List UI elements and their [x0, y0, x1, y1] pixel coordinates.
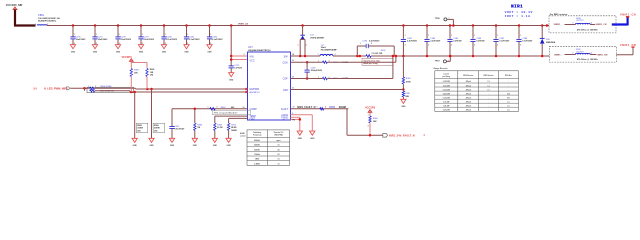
table switching frequency — [247, 130, 290, 165]
capacitor C287 — [493, 24, 510, 57]
svg-text:3.4: 3.4 — [33, 87, 37, 90]
wire FAULT out — [346, 109, 348, 136]
svg-text:VNIR1_CN: VNIR1_CN — [596, 24, 607, 26]
svg-text:U17: U17 — [248, 45, 253, 49]
svg-text:VCC3P3: VCC3P3 — [121, 55, 132, 59]
svg-text:3OHM: 3OHM — [137, 128, 143, 130]
svg-text:1: 1 — [208, 107, 209, 109]
resistor R366 — [194, 108, 204, 139]
note TH1 temp — [213, 111, 251, 115]
ground — [70, 45, 75, 49]
svg-text:0.1uF/100V: 0.1uF/100V — [499, 41, 510, 43]
svg-text:2: 2 — [368, 125, 369, 127]
resistor R307 — [90, 90, 115, 93]
capacitor C292 — [169, 109, 185, 139]
svg-text:1: 1 — [318, 54, 319, 56]
svg-text:2: 2 — [217, 107, 218, 109]
svg-text:GND: GND — [139, 52, 144, 54]
wire CSN — [291, 61, 323, 63]
svg-text:1: 1 — [187, 34, 188, 36]
diode D17 — [298, 24, 325, 57]
svg-text:1: 1 — [573, 53, 574, 55]
svg-text:R308: R308 — [137, 125, 142, 127]
capacitor C288 — [516, 24, 533, 57]
svg-text:11: 11 — [292, 88, 294, 90]
svg-text:2.2MHz: 2.2MHz — [254, 163, 260, 165]
svg-text:GND: GND — [193, 145, 198, 147]
svg-text:C279: C279 — [144, 36, 150, 38]
capacitor C276 — [70, 24, 86, 45]
op-amp U17 LMQ66430 regulator — [248, 45, 291, 121]
ground — [207, 45, 212, 49]
svg-text:2.2uF/100V: 2.2uF/100V — [407, 41, 418, 43]
svg-text:2.2uF/10/3V: 2.2uF/10/3V — [369, 40, 380, 42]
svg-text:1.6: 1.6 — [507, 106, 509, 108]
output port NIR1_24V_FAULT_N — [383, 133, 426, 137]
svg-text:2: 2 — [497, 45, 498, 47]
capacitor C280 — [161, 24, 177, 45]
svg-text:1: 1 — [573, 23, 574, 25]
wire CSP to sense — [328, 78, 393, 80]
svg-text:100 OHM,100 MHZ_GA: 100 OHM,100 MHZ_GA — [38, 17, 60, 20]
svg-text:0.121-30R: 0.121-30R — [443, 89, 451, 91]
svg-text:C276: C276 — [76, 36, 82, 38]
resistor R303 — [318, 61, 348, 64]
svg-text:0.1uF/100V: 0.1uF/100V — [167, 39, 178, 41]
svg-text:43: 43 — [278, 148, 280, 151]
svg-text:0.01uF/16V: 0.01uF/16V — [174, 129, 185, 131]
svg-text:PIC1094XPDDIMP: PIC1094XPDDIMP — [321, 49, 338, 52]
svg-text:FSET: FSET — [250, 119, 256, 121]
svg-text:10K: 10K — [373, 121, 377, 123]
power port VCC4025_NIR — [6, 4, 23, 10]
wire FSET — [229, 117, 248, 119]
svg-text:CNI: CNI — [154, 130, 158, 132]
svg-text:FB01: FB01 — [38, 14, 44, 17]
svg-text:GND: GND — [162, 52, 167, 54]
svg-text:1.2: 1.2 — [487, 81, 489, 83]
svg-text:1: 1 — [318, 61, 319, 63]
svg-text:VCC3P3: VCC3P3 — [365, 106, 376, 110]
svg-text:Switching: Switching — [253, 131, 261, 134]
svg-text:1608M: 1608M — [231, 130, 237, 132]
wire CSP — [291, 78, 323, 80]
ground — [401, 99, 406, 103]
svg-text:1: 1 — [428, 35, 429, 37]
ferrite bead FB10 box — [549, 16, 616, 33]
svg-text:2: 2 — [451, 45, 452, 47]
svg-text:2: 2 — [292, 113, 293, 115]
svg-text:VCC: VCC — [250, 59, 255, 62]
svg-text:GND: GND — [226, 145, 231, 147]
svg-text:1uF/16V: 1uF/16V — [234, 68, 242, 70]
svg-text:C280: C280 — [167, 36, 173, 38]
svg-text:GND: GND — [116, 52, 121, 54]
svg-text:CSP: CSP — [283, 78, 288, 81]
svg-text:GND: GND — [149, 145, 154, 147]
test point TP57 — [435, 55, 452, 63]
svg-text:ADJ/MP1G: ADJ/MP1G — [250, 91, 260, 94]
svg-text:NIR1: NIR1 — [511, 4, 523, 9]
svg-text:C282: C282 — [212, 36, 218, 38]
svg-text:GND: GND — [133, 145, 138, 147]
capacitor C282 — [207, 24, 223, 45]
svg-text:2: 2 — [335, 54, 336, 56]
wire VNIR1_IN bus — [47, 25, 549, 27]
svg-text:10uF/100V: 10uF/100V — [76, 39, 87, 41]
svg-text:VCC4025_NIR: VCC4025_NIR — [6, 4, 23, 7]
svg-text:BLM41PG101SN1L: BLM41PG101SN1L — [38, 20, 57, 23]
svg-text:10K: 10K — [134, 72, 138, 74]
svg-text:GND: GND — [213, 145, 218, 147]
svg-text:1uF/100V: 1uF/100V — [476, 41, 485, 43]
svg-text:0.1uF/100V: 0.1uF/100V — [212, 39, 223, 41]
inductor L17 — [318, 45, 338, 56]
svg-text:1: 1 — [474, 35, 475, 37]
wire VIN — [230, 24, 233, 27]
svg-text:1.87-30R: 1.87-30R — [443, 106, 450, 108]
svg-text:1.10-30R: 1.10-30R — [443, 101, 450, 103]
svg-text:2.2: 2.2 — [507, 110, 509, 112]
wire TEMP — [215, 115, 248, 117]
capacitor C279 — [138, 24, 154, 45]
svg-text:2: 2 — [474, 45, 475, 47]
svg-text:470 OHms @ 100 MHz: 470 OHms @ 100 MHz — [577, 58, 598, 61]
svg-text:12: 12 — [292, 77, 294, 79]
svg-text:IOUT = 1.1A: IOUT = 1.1A — [505, 14, 531, 18]
capacitor C294 bypass — [357, 40, 394, 56]
node bus box1 — [546, 24, 549, 27]
svg-text:1: 1 — [88, 86, 89, 88]
svg-text:1: 1 — [318, 77, 319, 79]
svg-text:SMBJ30A: SMBJ30A — [546, 41, 556, 44]
svg-text:TH1_temp=100kohm?: TH1_temp=100kohm? — [214, 112, 238, 115]
svg-text:C275: C275 — [234, 65, 240, 67]
resistor R367 — [402, 56, 411, 91]
svg-text:C281: C281 — [189, 36, 195, 38]
svg-text:R368: R368 — [329, 106, 335, 109]
svg-text:17: 17 — [293, 107, 295, 109]
svg-text:1.3: 1.3 — [487, 85, 489, 87]
svg-text:82K: 82K — [405, 96, 409, 98]
svg-text:0.1uF/100V: 0.1uF/100V — [189, 39, 200, 41]
svg-text:VNIR1_LN: VNIR1_LN — [238, 23, 249, 25]
wire PGND EP — [291, 117, 302, 131]
ground — [161, 45, 166, 49]
ground — [226, 138, 231, 142]
resistor R309 pulldown — [152, 89, 165, 138]
capacitor C286 — [470, 24, 485, 57]
svg-text:GND: GND — [310, 138, 315, 140]
svg-text:1: 1 — [451, 35, 452, 37]
resistor R365 pullup DNI — [131, 63, 154, 90]
capacitor C284 — [424, 24, 441, 57]
resistor R362 — [208, 107, 236, 111]
ground — [115, 45, 120, 49]
svg-text:GND: GND — [71, 52, 76, 54]
svg-text:13: 13 — [278, 145, 280, 147]
svg-text:0.111-30R: 0.111-30R — [443, 85, 451, 87]
ferrite bead FB11 box — [549, 46, 616, 62]
svg-text:3OHM: 3OHM — [339, 106, 346, 109]
svg-text:GND: GND — [184, 52, 189, 54]
svg-text:1: 1 — [210, 34, 211, 36]
svg-text:LMQ66430MAXTRXQ1: LMQ66430MAXTRXQ1 — [248, 49, 272, 52]
svg-text:61.9K: 61.9K — [217, 127, 223, 129]
svg-text:2.2uF/100V: 2.2uF/100V — [430, 41, 441, 43]
resistor R368 — [317, 106, 346, 110]
svg-text:14: 14 — [292, 53, 294, 56]
svg-text:1uF/100V: 1uF/100V — [453, 41, 462, 43]
wire ADJ to IC — [95, 90, 130, 92]
capacitor C293 1000pF — [305, 61, 323, 80]
resistor R375 — [227, 118, 237, 138]
svg-text:5.210-30R: 5.210-30R — [443, 110, 451, 112]
svg-text:C278: C278 — [121, 36, 127, 38]
capacitor C278 — [115, 24, 131, 45]
svg-text:1: 1 — [497, 35, 498, 37]
svg-text:88.5K: 88.5K — [231, 127, 237, 129]
svg-text:0.170-30R: 0.170-30R — [443, 97, 451, 99]
ground — [184, 45, 189, 49]
svg-text:H_LED_PWM_NIR1: H_LED_PWM_NIR1 — [44, 86, 68, 90]
svg-text:40mA per string: 40mA per string — [363, 62, 378, 65]
resistor R306 — [87, 86, 134, 93]
svg-text:2.2uF/100V: 2.2uF/100V — [121, 39, 132, 41]
svg-text:TP57: TP57 — [435, 60, 441, 62]
ground — [132, 138, 137, 142]
resistor R363 pullup — [368, 113, 379, 137]
capacitor C285 — [447, 24, 462, 57]
wire VCC — [230, 55, 233, 58]
ground — [169, 138, 174, 142]
svg-text:1.0: 1.0 — [487, 89, 489, 91]
ferrite bead FB01 — [35, 14, 60, 26]
svg-text:R309: R309 — [154, 125, 159, 127]
svg-text:2.2uF/100V: 2.2uF/100V — [144, 39, 155, 41]
svg-text:GND: GND — [207, 52, 212, 54]
svg-text:GND: GND — [229, 80, 234, 82]
svg-text:R361 Res: R361 Res — [505, 75, 512, 77]
resistor R308 pulldown — [135, 92, 148, 138]
wire FAULT — [291, 106, 349, 109]
svg-text:VNIR1_CN: VNIR1_CN — [620, 14, 636, 17]
wire VCC4025_NIR to FB01 — [14, 10, 16, 26]
ground — [229, 73, 234, 77]
svg-text:270K: 270K — [406, 81, 411, 83]
svg-text:CNI: CNI — [137, 130, 141, 132]
svg-text:VNIR1_ON: VNIR1_ON — [620, 44, 636, 47]
svg-text:450kHz: 450kHz — [254, 144, 260, 147]
svg-text:470 OHms @ 100 MHz: 470 OHms @ 100 MHz — [577, 28, 598, 31]
svg-text:1: 1 — [165, 34, 166, 36]
svg-text:VNIR1_: VNIR1_ — [554, 24, 562, 26]
svg-text:0.77: 0.77 — [507, 97, 510, 99]
svg-text:7427927: 7427927 — [576, 20, 583, 22]
svg-text:CNI: CNI — [150, 74, 154, 76]
svg-text:open: open — [276, 140, 280, 142]
svg-text:13: 13 — [278, 163, 280, 165]
svg-text:VIN: VIN — [250, 55, 254, 58]
svg-text:EN/PWM: EN/PWM — [250, 89, 260, 91]
svg-text:Frequency: Frequency — [253, 135, 262, 137]
test point TP56 — [435, 18, 455, 27]
svg-text:400kHz: 400kHz — [254, 139, 260, 142]
svg-text:13: 13 — [292, 60, 294, 62]
resistor R302 sense — [356, 50, 386, 57]
svg-text:TP56: TP56 — [435, 18, 441, 20]
svg-text:1000pF/100V: 1000pF/100V — [311, 70, 323, 72]
svg-text:TP5: TP5 — [292, 119, 295, 121]
svg-text:1: 1 — [142, 34, 143, 36]
svg-text:1: 1 — [360, 43, 361, 45]
svg-text:1: 1 — [520, 35, 521, 37]
wire EN to IC — [95, 87, 136, 89]
svg-text:Range Resistor: Range Resistor — [434, 67, 448, 70]
resistor R361 — [402, 91, 411, 99]
svg-text:1: 1 — [368, 114, 369, 116]
wire AGND — [291, 114, 313, 116]
svg-text:Total Current 1.1A: Total Current 1.1A — [363, 59, 380, 62]
svg-text:DAP: DAP — [283, 89, 288, 92]
title NIR1 — [505, 4, 533, 18]
svg-text:1: 1 — [405, 35, 406, 37]
svg-text:1: 1 — [74, 34, 75, 36]
resistor R305 — [318, 77, 348, 80]
diode D20 TVS — [540, 24, 556, 57]
svg-text:0.35: 0.35 — [507, 93, 510, 95]
wire EN input — [70, 87, 89, 89]
wire SW rail — [291, 53, 550, 56]
svg-text:1M: 1M — [197, 127, 200, 129]
svg-text:VNIR1_ON: VNIR1_ON — [596, 54, 607, 56]
wire COMP — [172, 108, 248, 110]
svg-text:NIR1_24V_FAULT_N: NIR1_24V_FAULT_N — [389, 133, 415, 137]
svg-text:1: 1 — [317, 107, 318, 109]
svg-text:500kHz: 500kHz — [254, 149, 260, 151]
svg-text:GND: GND — [298, 138, 303, 140]
svg-text:1: 1 — [298, 45, 299, 47]
power port VCC3P3 right — [365, 106, 376, 113]
wire VNIR1_CN thick — [612, 14, 636, 26]
svg-text:10uF/100V: 10uF/100V — [98, 39, 109, 41]
input port H_LED_PWM_NIR1 — [33, 86, 70, 90]
power port VCC3P3 — [121, 55, 133, 61]
capacitor C277 — [92, 24, 108, 45]
svg-text:1.2: 1.2 — [507, 101, 509, 103]
note total current — [362, 58, 393, 65]
svg-text:23: 23 — [278, 154, 280, 156]
svg-text:3OHM: 3OHM — [154, 128, 160, 130]
ground — [212, 138, 217, 142]
ground — [92, 45, 97, 49]
svg-text:2: 2 — [405, 45, 406, 47]
svg-text:GND (FSW): GND (FSW) — [274, 135, 283, 137]
svg-text:1: 1 — [119, 34, 120, 36]
svg-text:R306 3OHM: R306 3OHM — [100, 86, 111, 88]
capacitor C275 — [229, 65, 243, 73]
svg-text:10: 10 — [243, 107, 245, 109]
svg-text:13: 13 — [278, 159, 280, 161]
ground — [297, 131, 302, 135]
svg-text:1: 1 — [35, 24, 36, 26]
svg-text:GND: GND — [401, 106, 406, 108]
svg-text:C277: C277 — [98, 36, 104, 38]
node EN pin — [245, 88, 247, 90]
svg-text:GND: GND — [170, 145, 175, 147]
svg-text:2: 2 — [325, 107, 326, 109]
svg-text:1MHz: 1MHz — [255, 159, 260, 161]
wire CSN to sense — [328, 61, 396, 63]
svg-text:3: 3 — [244, 54, 245, 56]
svg-text:2: 2 — [306, 45, 307, 47]
svg-text:VNIR1_: VNIR1_ — [554, 54, 562, 56]
capacitor C281 — [184, 24, 200, 45]
ground — [192, 138, 197, 142]
svg-text:1: 1 — [96, 34, 97, 36]
svg-text:700kHz: 700kHz — [254, 154, 260, 156]
svg-text:FAULT: FAULT — [281, 108, 289, 111]
svg-text:CSN: CSN — [282, 61, 287, 64]
table values resistor — [434, 67, 519, 111]
wire OV feedback — [291, 89, 404, 91]
svg-text:2: 2 — [520, 45, 521, 47]
ground — [138, 45, 143, 49]
svg-text:GND: GND — [93, 52, 98, 54]
ground — [310, 131, 315, 135]
svg-text:V15FD-M2VER: V15FD-M2VER — [310, 37, 324, 39]
svg-text:0.1uF/100V: 0.1uF/100V — [522, 41, 533, 43]
svg-text:2 1.61/1.13K: 2 1.61/1.13K — [372, 53, 383, 55]
wire VNIR1_ON out — [616, 44, 636, 55]
svg-text:2: 2 — [428, 45, 429, 47]
ground — [149, 138, 154, 142]
svg-text:2: 2 — [371, 43, 372, 45]
svg-text:NIR1_FAULT_N: NIR1_FAULT_N — [297, 106, 315, 109]
resistor R364 pullup — [130, 62, 140, 92]
capacitor C283 — [401, 24, 418, 57]
resistor R369 — [214, 116, 224, 138]
